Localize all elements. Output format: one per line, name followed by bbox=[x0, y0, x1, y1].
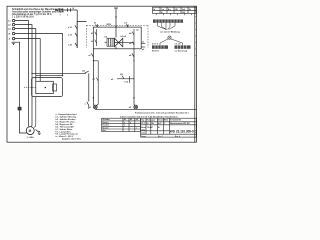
svg-text:WSV: WSV bbox=[107, 24, 112, 26]
contact a21 bbox=[68, 25, 77, 29]
contact a25 bbox=[68, 43, 77, 47]
svg-text:Funktionsmatrix b11 - b13 und: Funktionsmatrix b11 - b13 und geschaltet… bbox=[135, 111, 190, 114]
terminal strip X1 bbox=[153, 19, 183, 22]
mains rail top bbox=[55, 9, 77, 11]
contact a23 bbox=[68, 33, 77, 37]
wire L3 to bus bbox=[15, 29, 36, 82]
svg-text:Blatt: Blatt bbox=[164, 119, 168, 122]
bottom rail wire bbox=[95, 108, 197, 110]
svg-text:Kochen: Kochen bbox=[102, 125, 110, 127]
svg-text:4.67: 4.67 bbox=[158, 122, 162, 125]
bus drop to motor third bbox=[34, 97, 36, 128]
svg-text:Tag: Tag bbox=[141, 120, 144, 122]
svg-text:Heizen: Heizen bbox=[102, 122, 109, 124]
terminal L1 bbox=[8, 19, 15, 22]
contact a13 bbox=[85, 102, 89, 109]
wire L1 to bus bbox=[15, 21, 29, 125]
wire left lamp branch bbox=[92, 49, 94, 105]
svg-text:Nr: Nr bbox=[153, 9, 155, 11]
svg-text:Kr: Kr bbox=[158, 127, 160, 129]
svg-text:zur oberen Wicklung: zur oberen Wicklung bbox=[160, 32, 180, 34]
svg-text:zur Steuerung: zur Steuerung bbox=[175, 50, 189, 53]
terminal strip X3 bbox=[175, 42, 191, 52]
relay contact cluster b11 bbox=[111, 74, 135, 84]
svg-text:Aus: Aus bbox=[102, 129, 106, 132]
svg-text:1: 1 bbox=[164, 123, 165, 125]
wire into program unit bbox=[77, 22, 86, 49]
motor bowtie M1 bbox=[115, 38, 123, 49]
wire Z to bus bbox=[15, 39, 40, 82]
svg-text:220: 220 bbox=[182, 12, 185, 14]
contact b7 bbox=[93, 78, 99, 81]
svg-text:Hz: Hz bbox=[189, 9, 191, 11]
svg-text:1~ 50Hz: 1~ 50Hz bbox=[27, 137, 35, 139]
page background bbox=[0, 0, 200, 144]
tank inner box bbox=[36, 81, 54, 93]
wire N to node bbox=[15, 34, 63, 76]
wire to bottom rail bbox=[88, 73, 90, 101]
terminal N bbox=[9, 32, 15, 35]
frame ruler ticks bbox=[195, 10, 197, 56]
wire heater feed B bbox=[36, 75, 63, 77]
symbol circle A bbox=[168, 36, 171, 39]
svg-text:Waschautomat WV 300: Waschautomat WV 300 bbox=[170, 122, 190, 125]
svg-text:1 L 220 V 50 Hz 16 A: 1 L 220 V 50 Hz 16 A bbox=[12, 15, 34, 18]
wire branch link bbox=[93, 60, 98, 62]
svg-text:Angaben ohne Gew.: Angaben ohne Gew. bbox=[62, 137, 82, 140]
terminal L3 bbox=[8, 27, 15, 30]
wire PE down bbox=[16, 42, 20, 107]
tank center node bbox=[45, 87, 46, 88]
function table bbox=[102, 118, 141, 131]
contact a3 bbox=[88, 53, 94, 61]
wires program unit right exits bbox=[141, 42, 145, 52]
PE wire to motor bbox=[20, 110, 27, 133]
wire switch column bbox=[76, 10, 78, 48]
svg-text:Schalter: Schalter bbox=[102, 118, 110, 121]
leads from symbol to strips bbox=[160, 39, 183, 46]
note text block top-left bbox=[12, 8, 64, 18]
svg-text:Art: Art bbox=[168, 8, 171, 11]
svg-text:b2 b4: b2 b4 bbox=[121, 35, 127, 38]
svg-text:Ers. f: Ers. f bbox=[158, 136, 163, 138]
node junction A bbox=[31, 73, 32, 74]
contact a11 bbox=[82, 71, 89, 74]
svg-text:b1: b1 bbox=[124, 119, 126, 121]
wire right lamp branch bbox=[133, 49, 135, 105]
program switch box bbox=[93, 27, 141, 49]
stub leads under table bbox=[156, 13, 191, 15]
terminal PE ground symbol bbox=[12, 42, 16, 44]
dashed level line bbox=[24, 86, 36, 88]
svg-text:Wz: Wz bbox=[151, 123, 154, 125]
svg-text:Schaltbild Nr: Schaltbild Nr bbox=[170, 119, 181, 122]
switch contact pair 2 bbox=[67, 8, 70, 16]
strip X1 leads bbox=[158, 23, 176, 30]
svg-text:b3: b3 bbox=[136, 119, 138, 121]
contact chain inside right bbox=[129, 29, 134, 49]
svg-text:gepr: gepr bbox=[151, 120, 155, 122]
arrow mark right bbox=[133, 97, 135, 99]
lamp h2 bbox=[129, 105, 138, 110]
dashed enclosure bbox=[87, 25, 149, 47]
svg-text:Nam: Nam bbox=[147, 120, 151, 122]
contact a4 bbox=[129, 53, 135, 61]
wire heater feed A bbox=[32, 72, 86, 74]
wire parallel branch left bbox=[97, 61, 99, 104]
wire L2 to bus bbox=[15, 25, 32, 125]
svg-text:Zust: Zust bbox=[141, 131, 145, 134]
svg-text:W: W bbox=[161, 12, 163, 14]
terminal L2 bbox=[8, 23, 15, 26]
motor ground arrow bbox=[36, 130, 41, 135]
svg-text:Gepr: Gepr bbox=[141, 130, 145, 132]
border frame bbox=[7, 6, 197, 142]
wire bowtie to right bbox=[123, 42, 134, 44]
svg-text:Kr: Kr bbox=[147, 123, 149, 125]
svg-text:Volt: Volt bbox=[182, 8, 186, 11]
terminal strip X2 bbox=[152, 43, 168, 52]
lamp h1 bbox=[89, 104, 99, 109]
svg-text:1 2 3 4: 1 2 3 4 bbox=[175, 42, 182, 45]
svg-text:Sparen: Sparen bbox=[102, 127, 109, 129]
legend list bbox=[56, 113, 82, 140]
contact b1 on box top bbox=[94, 23, 98, 28]
title block bbox=[141, 118, 197, 137]
top right data table bbox=[153, 7, 197, 13]
svg-text:12.4.67: 12.4.67 bbox=[147, 126, 153, 129]
svg-text:WD 23.110.300-0 C: WD 23.110.300-0 C bbox=[170, 130, 198, 134]
feed wire from top bbox=[107, 8, 119, 38]
arrow mark left bbox=[93, 97, 95, 99]
svg-text:5 6 7 8: 5 6 7 8 bbox=[152, 43, 158, 45]
heater resistor block bbox=[105, 36, 115, 46]
svg-text:12.3: 12.3 bbox=[141, 123, 145, 125]
node junction B bbox=[62, 75, 63, 76]
switch contact pair 1 bbox=[60, 8, 63, 16]
tank side box bbox=[53, 84, 57, 91]
PE inline fuse block bbox=[18, 107, 22, 111]
contact b5 inside left bbox=[91, 29, 97, 46]
svg-text:Urspr: Urspr bbox=[141, 136, 146, 138]
contact b2 on box top bbox=[125, 23, 129, 28]
svg-text:b2: b2 bbox=[130, 119, 132, 121]
svg-text:Ers. d: Ers. d bbox=[175, 136, 180, 138]
svg-text:Klemme: Klemme bbox=[152, 51, 159, 53]
motor M bbox=[26, 124, 34, 134]
function notes bbox=[120, 111, 190, 118]
svg-text:M: M bbox=[29, 129, 32, 133]
tank outer box bbox=[32, 78, 63, 97]
svg-text:kW: kW bbox=[175, 9, 178, 11]
terminal Z bbox=[9, 37, 15, 40]
